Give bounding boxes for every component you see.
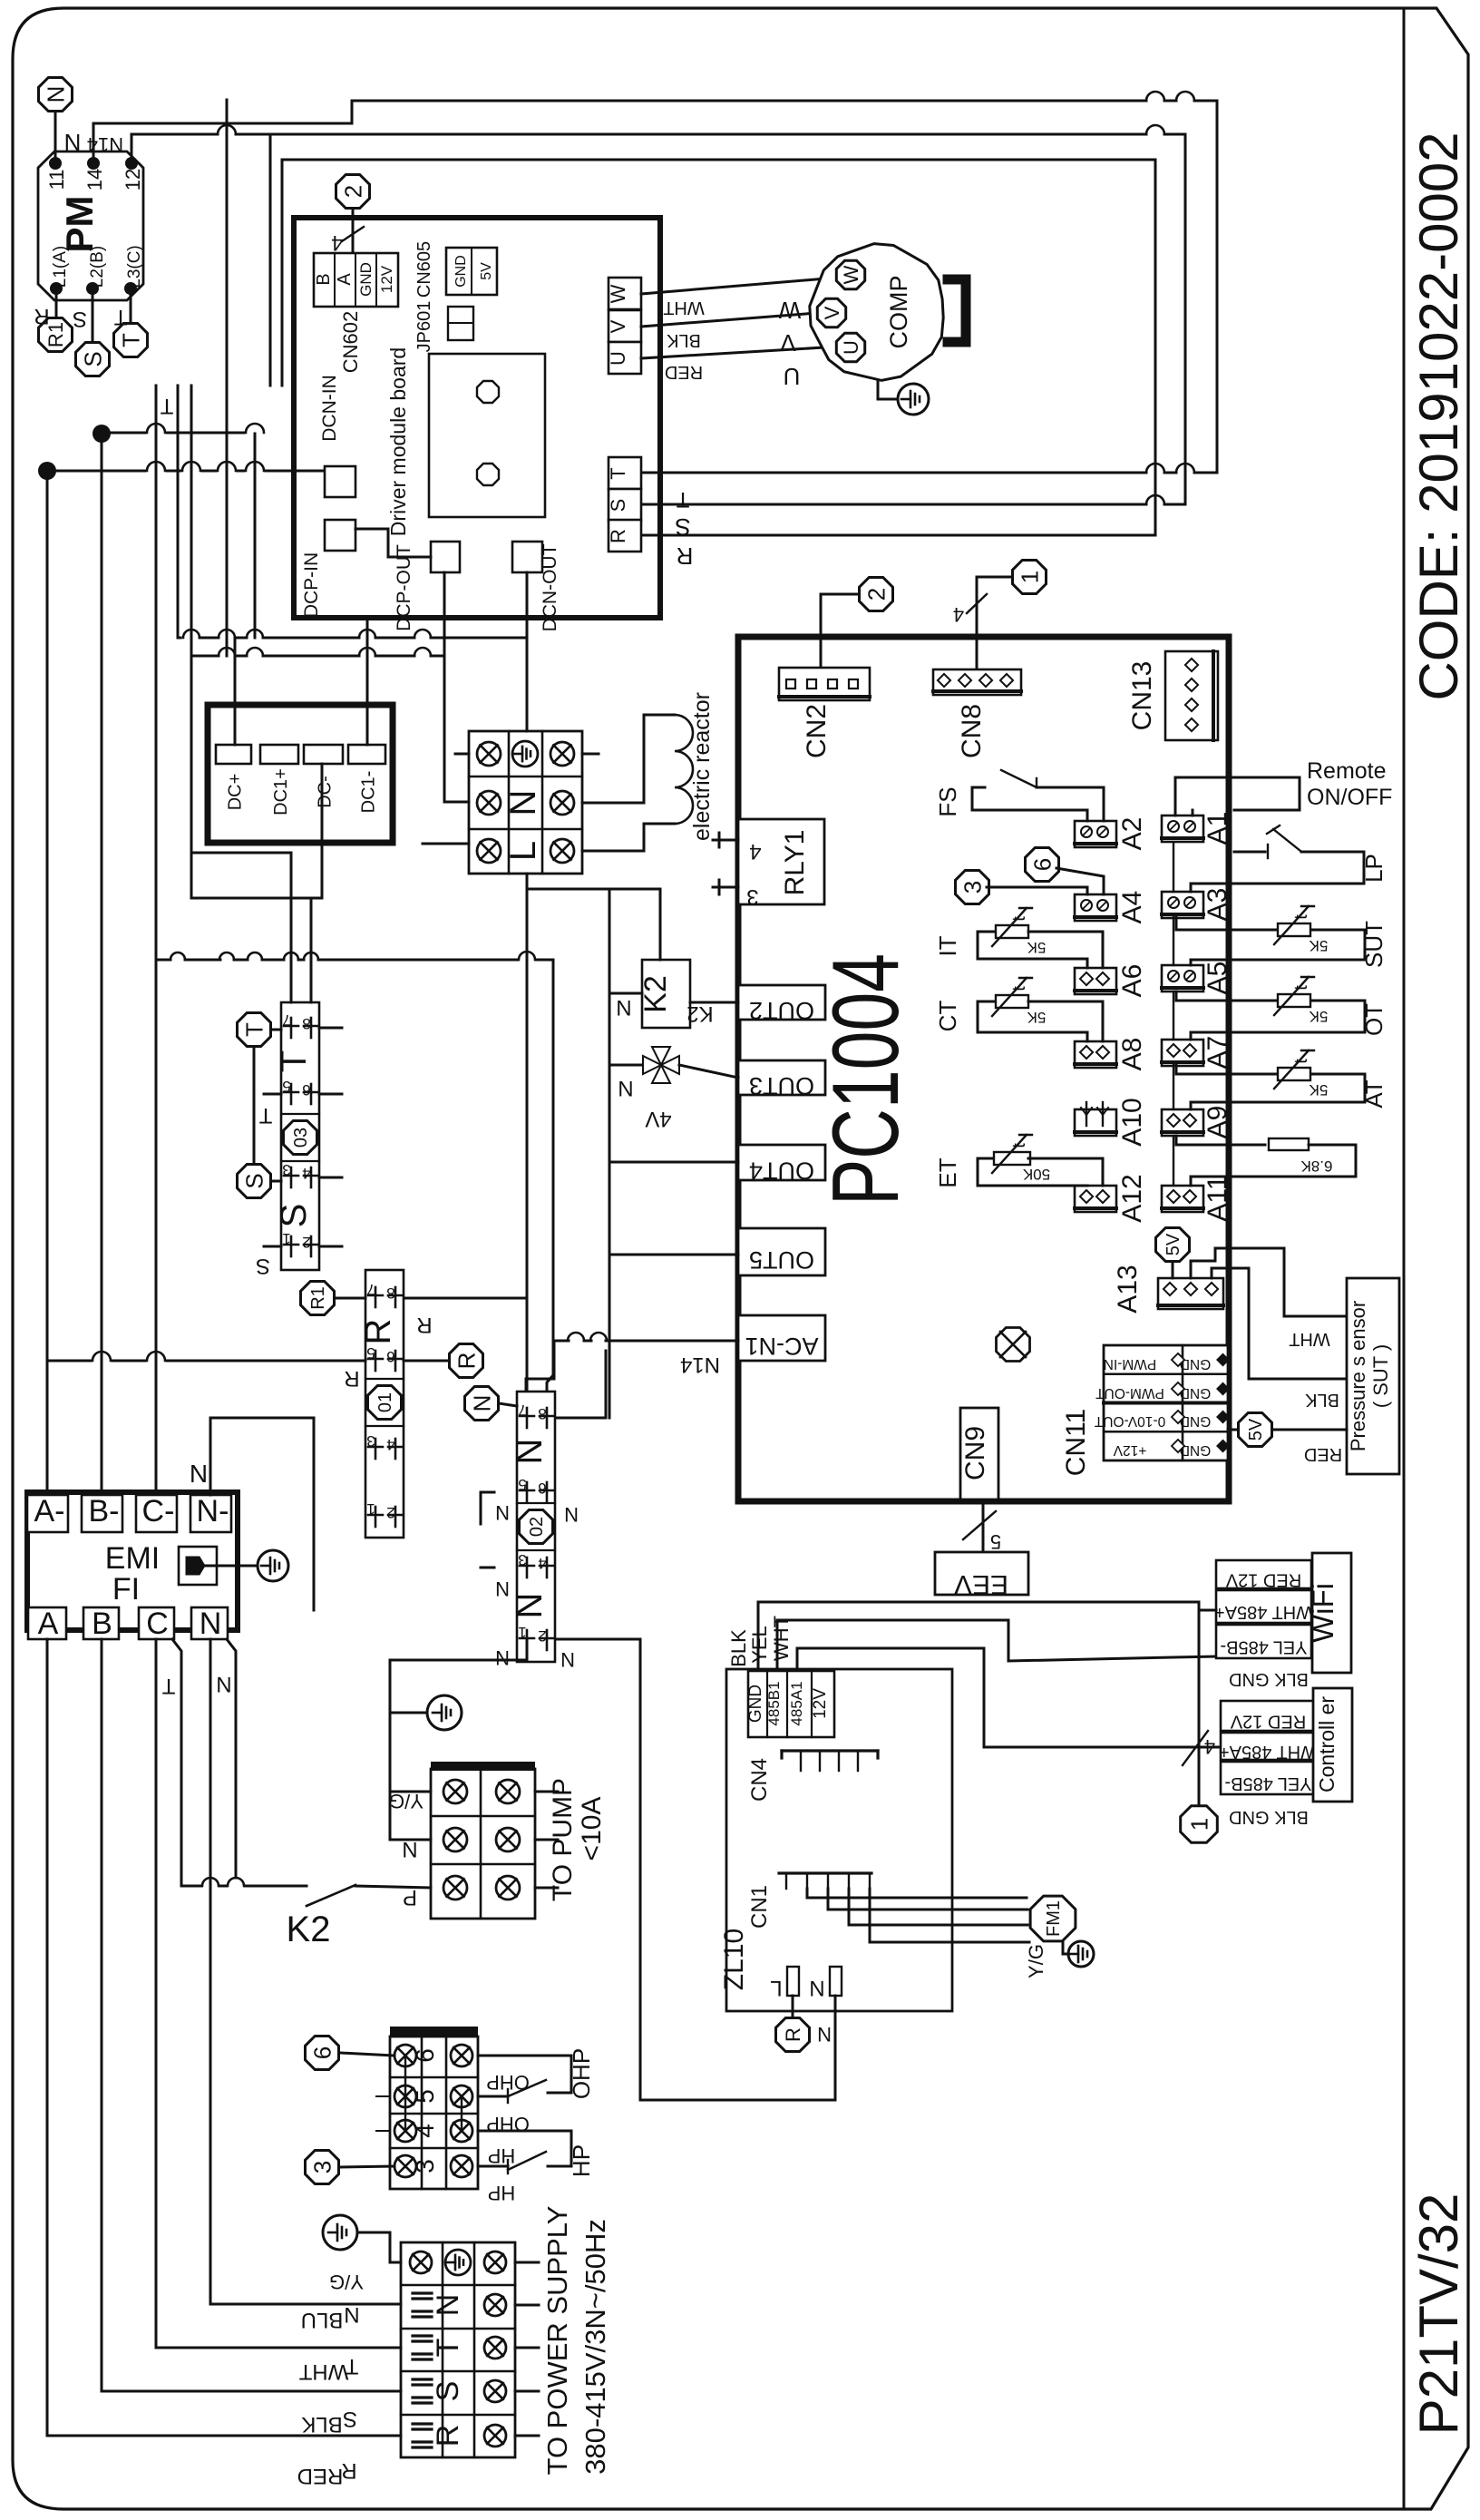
svg-text:CN2: CN2 bbox=[802, 704, 832, 758]
svg-text:WHT: WHT bbox=[1289, 1329, 1330, 1349]
svg-text:BLK: BLK bbox=[301, 2412, 342, 2437]
svg-text:HP: HP bbox=[488, 2182, 516, 2204]
svg-text:5K: 5K bbox=[1027, 939, 1046, 956]
svg-text:S: S bbox=[675, 513, 690, 541]
svg-text:R: R bbox=[416, 1313, 432, 1337]
svg-text:T: T bbox=[160, 394, 173, 418]
svg-text:OHP: OHP bbox=[486, 2071, 530, 2094]
svg-text:50K: 50K bbox=[1022, 1166, 1050, 1183]
svg-text:CN4: CN4 bbox=[747, 1758, 772, 1802]
svg-text:DCN-IN: DCN-IN bbox=[319, 375, 340, 442]
svg-text:TO PUMP: TO PUMP bbox=[548, 1778, 578, 1901]
svg-text:8: 8 bbox=[538, 1405, 546, 1422]
svg-text:N: N bbox=[616, 995, 631, 1020]
svg-text:N: N bbox=[64, 129, 82, 156]
svg-text:C-: C- bbox=[142, 1494, 175, 1529]
svg-text:t: t bbox=[1291, 985, 1311, 991]
svg-text:R: R bbox=[607, 529, 629, 543]
svg-text:GND: GND bbox=[1180, 1385, 1211, 1401]
svg-text:N-: N- bbox=[197, 1494, 229, 1529]
svg-text:A1: A1 bbox=[1202, 812, 1232, 845]
svg-text:EEV: EEV bbox=[954, 1569, 1008, 1599]
svg-text:R: R bbox=[344, 1366, 359, 1391]
svg-text:BLK GND: BLK GND bbox=[1229, 1807, 1309, 1827]
svg-text:4: 4 bbox=[538, 1555, 546, 1572]
svg-text:A10: A10 bbox=[1117, 1098, 1147, 1146]
svg-text:OUT2: OUT2 bbox=[749, 997, 814, 1024]
svg-text:FS: FS bbox=[934, 786, 961, 816]
svg-text:t: t bbox=[1291, 1059, 1311, 1064]
svg-text:N: N bbox=[468, 1395, 495, 1412]
svg-text:P: P bbox=[403, 1885, 417, 1910]
svg-text:DC+: DC+ bbox=[226, 774, 246, 811]
svg-text:4: 4 bbox=[749, 839, 761, 864]
svg-text:W: W bbox=[840, 265, 862, 284]
svg-text:CN1: CN1 bbox=[747, 1885, 772, 1929]
svg-text:L: L bbox=[503, 841, 543, 861]
svg-text:DC1-: DC1- bbox=[359, 771, 379, 814]
svg-text:1: 1 bbox=[1185, 1818, 1212, 1831]
svg-text:N: N bbox=[809, 1976, 824, 2000]
svg-text:4: 4 bbox=[953, 603, 964, 626]
svg-text:RED: RED bbox=[665, 362, 703, 382]
svg-text:YEL: YEL bbox=[748, 1626, 771, 1664]
svg-text:T: T bbox=[345, 2354, 358, 2378]
svg-text:N14: N14 bbox=[680, 1353, 720, 1377]
svg-text:PC1004: PC1004 bbox=[813, 953, 919, 1206]
svg-text:JP601: JP601 bbox=[414, 301, 434, 353]
svg-text:3: 3 bbox=[518, 1551, 526, 1568]
svg-text:5: 5 bbox=[282, 1078, 290, 1095]
svg-text:2: 2 bbox=[386, 1504, 394, 1521]
svg-text:7: 7 bbox=[366, 1281, 375, 1298]
svg-text:5K: 5K bbox=[1309, 1081, 1328, 1099]
svg-text:2: 2 bbox=[339, 185, 366, 198]
svg-text:DC-: DC- bbox=[316, 776, 336, 808]
svg-text:5V: 5V bbox=[479, 262, 494, 280]
svg-text:4: 4 bbox=[331, 230, 343, 255]
svg-text:N: N bbox=[190, 1460, 208, 1488]
svg-text:6: 6 bbox=[1028, 858, 1056, 871]
svg-text:B: B bbox=[314, 273, 334, 285]
svg-text:WHT: WHT bbox=[770, 1616, 793, 1661]
svg-text:BLK GND: BLK GND bbox=[1229, 1669, 1309, 1689]
svg-text:5V: 5V bbox=[1164, 1233, 1183, 1255]
svg-text:N: N bbox=[564, 1503, 579, 1526]
svg-text:RLY1: RLY1 bbox=[780, 830, 810, 896]
svg-text:6: 6 bbox=[308, 2046, 336, 2059]
svg-text:WHT: WHT bbox=[663, 298, 705, 317]
svg-text:A12: A12 bbox=[1117, 1174, 1147, 1222]
svg-text:OHP: OHP bbox=[568, 2048, 595, 2099]
svg-text:N: N bbox=[216, 1672, 231, 1696]
svg-text:3: 3 bbox=[308, 2161, 336, 2173]
svg-text:485A1: 485A1 bbox=[788, 1681, 805, 1725]
svg-text:7: 7 bbox=[518, 1402, 526, 1419]
svg-text:S: S bbox=[73, 307, 87, 331]
svg-text:A6: A6 bbox=[1117, 964, 1147, 998]
svg-text:A11: A11 bbox=[1202, 1175, 1232, 1221]
svg-text:WHT: WHT bbox=[298, 2359, 348, 2384]
svg-text:6: 6 bbox=[538, 1480, 546, 1497]
svg-text:4V: 4V bbox=[645, 1107, 671, 1131]
svg-text:2: 2 bbox=[538, 1627, 546, 1645]
svg-text:6: 6 bbox=[386, 1348, 394, 1365]
svg-text:03: 03 bbox=[291, 1128, 311, 1148]
svg-text:<10A: <10A bbox=[577, 1797, 607, 1861]
svg-text:CN8: CN8 bbox=[957, 704, 987, 758]
svg-text:L2(B): L2(B) bbox=[88, 246, 107, 288]
svg-text:R: R bbox=[677, 542, 694, 570]
svg-text:RED: RED bbox=[1304, 1444, 1342, 1464]
svg-text:S: S bbox=[256, 1254, 270, 1278]
svg-text:COMP: COMP bbox=[885, 276, 912, 349]
svg-text:DC1+: DC1+ bbox=[271, 768, 291, 816]
svg-text:A-: A- bbox=[34, 1494, 65, 1529]
svg-text:A: A bbox=[335, 273, 355, 286]
svg-text:CN602: CN602 bbox=[339, 311, 362, 373]
svg-text:A9: A9 bbox=[1202, 1106, 1232, 1139]
svg-text:L1(A): L1(A) bbox=[51, 246, 70, 288]
svg-text:FM1: FM1 bbox=[1044, 1900, 1064, 1937]
svg-text:DCP-IN: DCP-IN bbox=[301, 552, 322, 618]
svg-text:N: N bbox=[344, 2302, 359, 2327]
svg-text:PWM-OUT: PWM-OUT bbox=[1095, 1385, 1164, 1401]
svg-text:AC-N1: AC-N1 bbox=[745, 1333, 818, 1360]
svg-text:RED 12V: RED 12V bbox=[1230, 1712, 1306, 1732]
svg-text:ZL10: ZL10 bbox=[719, 1929, 749, 1990]
svg-text:Pressure s ensor: Pressure s ensor bbox=[1347, 1301, 1369, 1451]
svg-text:0-10V-OUT: 0-10V-OUT bbox=[1094, 1413, 1165, 1429]
svg-text:T: T bbox=[113, 305, 127, 329]
svg-text:485B1: 485B1 bbox=[765, 1681, 783, 1725]
svg-text:K2: K2 bbox=[287, 1910, 331, 1949]
svg-text:CT: CT bbox=[934, 1001, 961, 1032]
svg-text:LP: LP bbox=[1360, 854, 1387, 883]
svg-text:GND: GND bbox=[1180, 1413, 1211, 1429]
svg-text:N: N bbox=[503, 790, 543, 816]
svg-text:T: T bbox=[258, 1103, 272, 1128]
svg-text:3: 3 bbox=[959, 881, 986, 894]
svg-text:U: U bbox=[607, 351, 629, 366]
svg-text:5V: 5V bbox=[1246, 1418, 1266, 1441]
svg-text:OUT3: OUT3 bbox=[749, 1072, 814, 1099]
svg-text:A13: A13 bbox=[1113, 1265, 1143, 1313]
svg-text:R: R bbox=[431, 2425, 465, 2447]
svg-text:N: N bbox=[42, 86, 69, 103]
svg-text:t: t bbox=[1009, 916, 1029, 922]
svg-text:V: V bbox=[607, 319, 629, 333]
svg-text:6.8K: 6.8K bbox=[1300, 1157, 1333, 1175]
svg-text:N: N bbox=[402, 1837, 417, 1861]
svg-text:Y/G: Y/G bbox=[389, 1790, 424, 1812]
svg-text:V: V bbox=[821, 306, 843, 319]
svg-text:5: 5 bbox=[518, 1476, 526, 1493]
svg-text:4: 4 bbox=[386, 1436, 394, 1453]
svg-text:ET: ET bbox=[934, 1157, 961, 1187]
svg-text:A7: A7 bbox=[1202, 1036, 1232, 1070]
svg-text:R: R bbox=[453, 1353, 480, 1370]
svg-text:8: 8 bbox=[386, 1284, 394, 1302]
svg-text:RED 12V: RED 12V bbox=[1225, 1570, 1301, 1590]
svg-text:N: N bbox=[200, 1607, 222, 1641]
svg-text:Y/G: Y/G bbox=[329, 2271, 364, 2293]
svg-text:N: N bbox=[560, 1648, 575, 1671]
svg-text:N: N bbox=[431, 2294, 465, 2317]
svg-text:A3: A3 bbox=[1202, 888, 1232, 922]
svg-text:ON/OFF: ON/OFF bbox=[1307, 785, 1392, 810]
svg-text:12: 12 bbox=[122, 169, 144, 190]
svg-text:GND: GND bbox=[357, 262, 375, 297]
svg-text:S: S bbox=[343, 2407, 357, 2431]
svg-text:T: T bbox=[676, 487, 689, 512]
svg-text:t: t bbox=[1291, 914, 1311, 920]
svg-text:WHT 485A+: WHT 485A+ bbox=[1219, 1742, 1318, 1762]
svg-text:2: 2 bbox=[862, 588, 890, 601]
svg-text:N: N bbox=[510, 1439, 550, 1465]
svg-text:3: 3 bbox=[746, 884, 758, 909]
svg-text:380-415V/3N~/50Hz: 380-415V/3N~/50Hz bbox=[579, 2219, 611, 2475]
svg-text:W: W bbox=[778, 297, 801, 324]
svg-text:S: S bbox=[274, 1204, 314, 1228]
svg-text:OUT4: OUT4 bbox=[749, 1157, 814, 1185]
svg-text:WiFi: WiFi bbox=[1306, 1583, 1339, 1643]
svg-text:3: 3 bbox=[282, 1161, 290, 1178]
svg-text:BLK: BLK bbox=[727, 1629, 750, 1667]
svg-text:4: 4 bbox=[1204, 1735, 1215, 1758]
svg-text:T: T bbox=[117, 333, 144, 347]
svg-text:K2: K2 bbox=[686, 1001, 713, 1026]
svg-text:R: R bbox=[341, 2458, 356, 2483]
svg-text:2: 2 bbox=[302, 1234, 310, 1251]
svg-text:+12V: +12V bbox=[1113, 1442, 1146, 1458]
svg-text:R: R bbox=[782, 2027, 804, 2042]
svg-text:01: 01 bbox=[375, 1392, 395, 1412]
svg-text:BLU: BLU bbox=[301, 2308, 344, 2332]
svg-text:S: S bbox=[431, 2381, 465, 2402]
svg-text:5K: 5K bbox=[1309, 937, 1328, 954]
svg-text:CN9: CN9 bbox=[960, 1426, 990, 1480]
svg-text:14: 14 bbox=[83, 169, 106, 190]
svg-text:U: U bbox=[840, 340, 862, 355]
svg-text:L3(C): L3(C) bbox=[125, 245, 144, 288]
svg-text:CN13: CN13 bbox=[1127, 661, 1157, 731]
svg-text:CN605: CN605 bbox=[414, 241, 434, 298]
svg-text:5K: 5K bbox=[1027, 1009, 1046, 1026]
svg-text:t: t bbox=[1009, 986, 1029, 991]
svg-text:S: S bbox=[240, 1173, 268, 1188]
svg-text:OUT5: OUT5 bbox=[749, 1246, 814, 1274]
svg-text:RED: RED bbox=[297, 2464, 344, 2488]
svg-text:1: 1 bbox=[518, 1624, 526, 1641]
svg-text:HP: HP bbox=[568, 2144, 595, 2177]
svg-text:TO POWER SUPPLY: TO POWER SUPPLY bbox=[541, 2206, 573, 2476]
svg-text:11: 11 bbox=[45, 170, 68, 190]
svg-text:T: T bbox=[274, 1050, 314, 1072]
svg-text:BLK: BLK bbox=[666, 330, 700, 350]
svg-text:GND: GND bbox=[453, 255, 469, 288]
svg-text:S: S bbox=[607, 499, 629, 513]
svg-text:PWM-IN: PWM-IN bbox=[1104, 1356, 1157, 1372]
svg-text:T: T bbox=[607, 467, 629, 479]
svg-text:GND: GND bbox=[746, 1685, 765, 1723]
svg-text:YEL 485B-: YEL 485B- bbox=[1225, 1773, 1312, 1793]
svg-text:A4: A4 bbox=[1117, 891, 1147, 924]
svg-text:N: N bbox=[495, 1577, 510, 1600]
svg-text:CODE: 20191022-0002: CODE: 20191022-0002 bbox=[1408, 132, 1469, 700]
svg-text:N: N bbox=[618, 1076, 633, 1100]
svg-text:B: B bbox=[92, 1607, 112, 1641]
svg-text:GND: GND bbox=[1180, 1442, 1211, 1458]
svg-text:3: 3 bbox=[366, 1432, 375, 1450]
svg-text:7: 7 bbox=[282, 1011, 290, 1029]
svg-text:A2: A2 bbox=[1117, 817, 1147, 851]
svg-text:N: N bbox=[495, 1646, 510, 1669]
svg-text:5: 5 bbox=[990, 1530, 1001, 1553]
svg-text:YEL 485B-: YEL 485B- bbox=[1221, 1637, 1308, 1657]
svg-text:t: t bbox=[1009, 1143, 1029, 1148]
svg-text:GND: GND bbox=[1180, 1356, 1211, 1372]
svg-text:N14: N14 bbox=[87, 133, 123, 156]
svg-text:A: A bbox=[38, 1607, 59, 1641]
svg-text:A5: A5 bbox=[1202, 962, 1232, 995]
svg-text:L: L bbox=[770, 1976, 782, 2000]
svg-text:4: 4 bbox=[302, 1165, 310, 1182]
svg-text:02: 02 bbox=[527, 1517, 547, 1537]
svg-text:DCN-OUT: DCN-OUT bbox=[540, 543, 560, 631]
svg-text:BLK: BLK bbox=[1304, 1390, 1339, 1410]
svg-text:T: T bbox=[240, 1022, 268, 1037]
svg-text:CN11: CN11 bbox=[1061, 1409, 1091, 1476]
svg-text:1: 1 bbox=[282, 1230, 290, 1247]
svg-text:IT: IT bbox=[934, 935, 961, 956]
svg-text:V: V bbox=[780, 329, 796, 357]
svg-text:OT: OT bbox=[1360, 1003, 1387, 1036]
svg-text:N: N bbox=[817, 2023, 832, 2046]
svg-text:5: 5 bbox=[366, 1344, 375, 1362]
svg-text:HP: HP bbox=[488, 2144, 516, 2167]
svg-text:1: 1 bbox=[1016, 571, 1043, 583]
svg-text:R: R bbox=[358, 1319, 398, 1345]
svg-text:( SUT ): ( SUT ) bbox=[1369, 1344, 1392, 1408]
svg-text:R: R bbox=[34, 304, 49, 328]
svg-text:5K: 5K bbox=[1309, 1008, 1328, 1025]
svg-text:P21TV/32: P21TV/32 bbox=[1408, 2193, 1469, 2436]
svg-text:Y/G: Y/G bbox=[1025, 1944, 1047, 1978]
svg-text:A8: A8 bbox=[1117, 1038, 1147, 1071]
svg-text:U: U bbox=[784, 363, 801, 390]
svg-text:R1: R1 bbox=[308, 1286, 328, 1310]
svg-text:FI: FI bbox=[112, 1572, 140, 1607]
svg-text:B-: B- bbox=[89, 1494, 120, 1529]
svg-text:Controll er: Controll er bbox=[1315, 1696, 1339, 1792]
svg-text:8: 8 bbox=[302, 1015, 310, 1032]
svg-text:C: C bbox=[146, 1607, 169, 1641]
svg-text:W: W bbox=[607, 284, 629, 303]
svg-text:T: T bbox=[431, 2339, 465, 2358]
svg-text:S: S bbox=[79, 351, 106, 366]
svg-text:T: T bbox=[161, 1674, 175, 1698]
svg-text:6: 6 bbox=[302, 1081, 310, 1099]
svg-text:K2: K2 bbox=[638, 975, 673, 1013]
svg-text:12V: 12V bbox=[378, 265, 395, 293]
svg-text:electric reactor: electric reactor bbox=[689, 692, 715, 841]
svg-text:1: 1 bbox=[366, 1500, 375, 1518]
svg-text:N: N bbox=[495, 1501, 510, 1524]
svg-text:PM: PM bbox=[58, 196, 101, 253]
svg-text:Remote: Remote bbox=[1307, 758, 1387, 784]
svg-text:WHT 485A+: WHT 485A+ bbox=[1214, 1602, 1313, 1622]
svg-text:N: N bbox=[510, 1593, 550, 1619]
svg-text:AT: AT bbox=[1360, 1079, 1387, 1108]
svg-text:12V: 12V bbox=[811, 1688, 830, 1719]
svg-text:Driver module board: Driver module board bbox=[386, 347, 410, 536]
svg-text:SUT: SUT bbox=[1360, 921, 1387, 968]
svg-text:EMI: EMI bbox=[105, 1541, 160, 1576]
